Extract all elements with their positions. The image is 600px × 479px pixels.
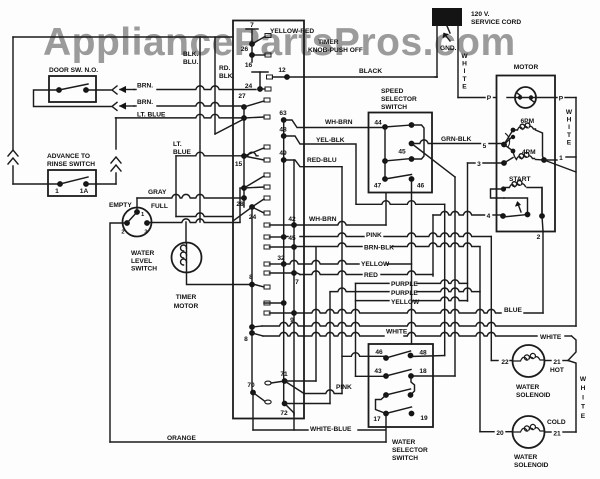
svg-text:E: E xyxy=(462,83,467,90)
wire black joins row xyxy=(435,76,437,78)
water level blade xyxy=(127,212,137,223)
svg-text:1: 1 xyxy=(141,212,145,218)
contact sq 287 xyxy=(264,285,270,289)
contact sq 198 xyxy=(264,196,270,200)
svg-text:RED: RED xyxy=(364,272,378,279)
speed terminal 46 xyxy=(409,176,415,182)
terminal 27 dot xyxy=(241,104,247,110)
svg-text:1: 1 xyxy=(559,155,563,162)
blade 24 to left xyxy=(233,207,252,221)
wire speed diag to 18 xyxy=(412,144,456,178)
timer assembly box xyxy=(233,21,304,419)
svg-text:28: 28 xyxy=(236,201,244,208)
contact oval 383 xyxy=(265,381,271,385)
service cord plug xyxy=(432,8,462,26)
wire 72 row xyxy=(285,403,330,405)
wire 21 cold xyxy=(545,431,552,433)
svg-text:TIMER: TIMER xyxy=(176,294,197,301)
terminal 26b dot xyxy=(249,52,255,58)
ground lead GRN xyxy=(447,26,450,33)
wire motor3 down xyxy=(467,163,469,301)
speed blade 47 xyxy=(385,175,412,180)
contact sq 147 xyxy=(264,145,270,149)
svg-text:48: 48 xyxy=(419,350,427,357)
svg-text:H: H xyxy=(462,61,467,68)
wire 71 row xyxy=(285,380,316,382)
wire BLUE row xyxy=(294,309,501,313)
svg-text:E: E xyxy=(581,413,586,420)
wsel terminal 48 xyxy=(408,353,414,359)
advance terminal 1A xyxy=(83,181,89,187)
svg-text:I: I xyxy=(582,394,584,401)
svg-text:32: 32 xyxy=(277,255,285,262)
svg-text:MOTOR: MOTOR xyxy=(514,64,539,71)
water level terminal 2 xyxy=(124,220,130,226)
wire full row xyxy=(147,219,240,223)
wire YELLOW row 32 xyxy=(284,260,359,264)
wire WHITE-BLUE row xyxy=(253,429,308,431)
svg-text:BRN-BLK: BRN-BLK xyxy=(364,245,394,252)
speed blade 44 xyxy=(385,125,412,127)
terminal 71 dot xyxy=(282,378,288,384)
blade 24-77 xyxy=(251,55,253,62)
svg-text:1: 1 xyxy=(55,188,59,195)
contact sq 117 xyxy=(264,115,270,119)
terminal 70 dot xyxy=(250,390,256,396)
svg-text:70: 70 xyxy=(247,382,255,389)
wire timer motor top xyxy=(185,222,187,243)
svg-text:LT.: LT. xyxy=(173,141,182,148)
connector chevron door row1 xyxy=(112,86,117,94)
start switch bar xyxy=(504,198,528,215)
svg-text:BRN.: BRN. xyxy=(137,83,153,90)
svg-text:W: W xyxy=(461,53,468,60)
svg-text:EMPTY: EMPTY xyxy=(109,202,132,209)
svg-text:DOOR SW. N.O.: DOOR SW. N.O. xyxy=(49,67,98,74)
wire 15 row xyxy=(176,152,258,156)
wire door right xyxy=(86,89,111,91)
switch SPEED SELECTOR box xyxy=(369,113,433,193)
terminal 7b dot xyxy=(291,270,297,276)
wire motor P row xyxy=(507,97,515,99)
door switch terminal right xyxy=(83,87,89,93)
centrifugal arrow xyxy=(518,203,522,213)
water level terminal 1 xyxy=(134,209,140,215)
motor box xyxy=(497,76,556,232)
svg-text:T: T xyxy=(581,404,585,411)
svg-text:MOTOR: MOTOR xyxy=(174,303,199,310)
svg-text:49: 49 xyxy=(279,150,287,157)
svg-text:15: 15 xyxy=(235,161,243,168)
svg-text:20: 20 xyxy=(496,430,504,437)
svg-text:24: 24 xyxy=(245,83,253,90)
terminal 9 dot xyxy=(291,310,297,316)
switch WATER SELECTOR box xyxy=(369,344,434,427)
svg-text:W: W xyxy=(566,109,573,116)
contact sq 55 xyxy=(265,53,271,57)
svg-text:BLACK: BLACK xyxy=(359,68,382,75)
switch DOOR box xyxy=(49,76,96,102)
svg-text:5: 5 xyxy=(483,143,487,150)
terminal 42 dot xyxy=(291,222,297,228)
timer motor M1 circle xyxy=(172,243,202,273)
wire WHITE row A xyxy=(252,326,262,327)
wire WH-BRN row 42 xyxy=(294,221,386,225)
contact sq 213 xyxy=(264,211,270,215)
svg-text:WATER: WATER xyxy=(131,250,155,257)
svg-text:48: 48 xyxy=(279,127,287,134)
svg-text:BRN.: BRN. xyxy=(137,99,153,106)
svg-text:72: 72 xyxy=(280,410,288,417)
motor circle xyxy=(515,87,536,108)
wire RD.BLK vertical xyxy=(214,37,216,134)
svg-text:YELLOW-RED: YELLOW-RED xyxy=(270,28,314,35)
svg-text:W: W xyxy=(580,376,587,383)
speed top right dot xyxy=(409,122,415,128)
wsel terminal 19 xyxy=(409,411,415,417)
svg-text:WATER: WATER xyxy=(392,439,416,446)
svg-text:43: 43 xyxy=(374,368,382,375)
svg-text:E: E xyxy=(567,139,572,146)
svg-text:46: 46 xyxy=(417,183,425,190)
svg-text:16: 16 xyxy=(245,62,253,69)
svg-text:RINSE SWITCH: RINSE SWITCH xyxy=(47,161,95,168)
wire 43 feed xyxy=(356,375,387,377)
svg-text:47: 47 xyxy=(374,183,382,190)
svg-text:SOLENOID: SOLENOID xyxy=(514,462,549,469)
svg-text:WH-BRN: WH-BRN xyxy=(309,216,337,223)
rail D xyxy=(293,160,295,415)
terminal 303 dot xyxy=(281,300,287,306)
svg-text:7: 7 xyxy=(250,22,254,29)
contact sq 273 xyxy=(264,271,270,275)
svg-text:TIMER: TIMER xyxy=(318,39,339,46)
wire motor terminal 2 xyxy=(541,188,543,217)
svg-text:2: 2 xyxy=(121,230,124,236)
wire 17 vertical xyxy=(385,414,387,443)
contact sq 100 xyxy=(264,98,270,102)
svg-text:BLK.: BLK. xyxy=(183,51,199,58)
coil START xyxy=(506,181,526,188)
wire ORANGE bottom xyxy=(110,441,386,443)
wire RED-BLU row 49 xyxy=(284,160,342,167)
wire 1A to connector xyxy=(86,183,116,185)
terminal 28 dot xyxy=(241,195,247,201)
svg-text:WHITE-BLUE: WHITE-BLUE xyxy=(310,426,352,433)
switch ADVANCE box xyxy=(48,170,96,196)
svg-text:45: 45 xyxy=(288,235,296,242)
wire YELLOW-RED top run xyxy=(13,36,233,38)
svg-text:SWITCH: SWITCH xyxy=(392,455,418,462)
svg-text:I: I xyxy=(568,124,570,131)
connector chevrons right xyxy=(111,157,121,163)
svg-text:SERVICE CORD: SERVICE CORD xyxy=(471,19,521,26)
terminal 15 dots xyxy=(241,153,247,159)
wire 70 drop xyxy=(252,393,254,431)
wire LT BLUE vertical xyxy=(175,156,177,217)
svg-text:RD.: RD. xyxy=(219,65,231,72)
rail C xyxy=(283,120,285,264)
wsel hook 18 down xyxy=(411,376,415,395)
contact oval 402 xyxy=(265,400,271,404)
speed left rail xyxy=(384,127,386,179)
terminal 32 dot xyxy=(281,261,287,267)
svg-text:PURPLE: PURPLE xyxy=(391,281,418,288)
svg-text:RED-BLU: RED-BLU xyxy=(307,157,337,164)
wire white lead xyxy=(457,26,459,98)
coil 6PM right lead xyxy=(536,130,545,160)
svg-text:COLD: COLD xyxy=(547,419,566,426)
solenoid COLD circle xyxy=(513,416,545,448)
wire BLUE up xyxy=(542,231,544,313)
terminal 8 dot xyxy=(249,282,255,288)
motor 4 dots and blade xyxy=(500,213,506,219)
svg-text:8: 8 xyxy=(249,274,253,281)
contact sq 237 xyxy=(264,235,270,239)
wsel mid dots xyxy=(383,392,389,398)
wire YELLOW2 row xyxy=(356,300,390,302)
wire BLACK row xyxy=(287,76,437,78)
wire 330 vertical xyxy=(329,293,331,404)
contact sq 35 xyxy=(265,34,271,38)
svg-text:44: 44 xyxy=(374,120,382,127)
svg-text:12: 12 xyxy=(278,67,286,74)
switch WATER LEVEL circle xyxy=(123,208,152,237)
svg-text:SPEED: SPEED xyxy=(381,88,404,95)
start loop left xyxy=(491,189,505,198)
svg-text:WHITE: WHITE xyxy=(540,334,562,341)
wsel terminal 46 xyxy=(383,355,389,361)
terminal 63 dot xyxy=(281,117,287,123)
rail A lower xyxy=(251,207,253,393)
svg-text:ORANGE: ORANGE xyxy=(167,435,197,442)
wsel blade 43-18 xyxy=(386,370,411,377)
terminal 8b dots xyxy=(249,324,255,330)
wsel hook 17 up xyxy=(376,395,387,414)
connector chevrons left xyxy=(8,150,18,156)
wire white-blue drop xyxy=(285,404,294,414)
svg-text:I: I xyxy=(464,68,466,75)
svg-text:P: P xyxy=(487,95,492,102)
motor brushes xyxy=(518,95,522,99)
coil START right lead xyxy=(527,188,542,216)
wire motor P right xyxy=(536,97,557,99)
wsel terminal 18 xyxy=(408,373,414,379)
svg-text:2: 2 xyxy=(537,234,541,241)
rail C lower xyxy=(283,264,285,404)
svg-text:21: 21 xyxy=(553,359,561,366)
wsel blade 46-48 xyxy=(386,351,411,358)
motor terminal 4 xyxy=(433,211,485,215)
svg-text:ADVANCE TO: ADVANCE TO xyxy=(47,153,90,160)
wire 4PM to 1 xyxy=(544,159,557,161)
svg-text:P: P xyxy=(559,96,564,103)
wire PINK row xyxy=(284,236,288,238)
svg-text:SOLENOID: SOLENOID xyxy=(516,392,551,399)
svg-text:PURPLE: PURPLE xyxy=(391,290,418,297)
svg-text:WATER: WATER xyxy=(516,384,540,391)
wire PINK drop to hot xyxy=(490,237,492,361)
svg-text:YELLOW: YELLOW xyxy=(391,299,420,306)
wire motor4 drop xyxy=(432,215,434,276)
svg-text:63: 63 xyxy=(279,110,287,117)
svg-text:22: 22 xyxy=(501,359,509,366)
svg-text:GRN-BLK: GRN-BLK xyxy=(441,136,472,143)
wire left outer vertical xyxy=(12,37,14,150)
wire 4PM diag white xyxy=(544,160,576,172)
svg-text:T: T xyxy=(462,76,466,83)
wire RED row xyxy=(294,273,300,275)
terminal 27b dot xyxy=(241,115,247,121)
wire BRN-BLK drop to cold xyxy=(479,247,481,432)
svg-text:46: 46 xyxy=(375,349,383,356)
svg-text:FULL: FULL xyxy=(151,203,168,210)
svg-text:1A: 1A xyxy=(80,188,89,195)
wire door left loop xyxy=(34,90,112,107)
solenoid HOT coil xyxy=(513,353,545,361)
contact sq 89 xyxy=(265,87,271,91)
contact sq 175 xyxy=(264,173,270,177)
wire orange left vertical xyxy=(110,223,127,442)
solenoid HOT circle xyxy=(513,345,545,377)
motor 5 pivot xyxy=(501,142,507,148)
wire YEL-BLK row 48 xyxy=(284,136,356,204)
arrow BRN row1 xyxy=(120,89,134,91)
svg-text:42: 42 xyxy=(288,216,296,223)
terminal 12 dot xyxy=(284,74,290,80)
motor rotary arc xyxy=(506,134,510,148)
svg-text:YELLOW: YELLOW xyxy=(361,261,390,268)
svg-text:WATER: WATER xyxy=(514,454,538,461)
coil 6PM xyxy=(513,123,536,130)
terminal 45 dot xyxy=(291,244,297,250)
wire white down to cold xyxy=(568,361,576,433)
svg-text:SWITCH: SWITCH xyxy=(381,104,407,111)
speed blade mid xyxy=(385,159,412,162)
svg-text:PINK: PINK xyxy=(366,232,382,239)
svg-text:WHITE: WHITE xyxy=(386,329,408,336)
rail A upper xyxy=(251,44,253,55)
wire PURPLE1 row xyxy=(356,282,390,284)
terminal 24 dot xyxy=(257,86,263,92)
advance terminal 1 xyxy=(57,181,63,187)
terminal 72 dot xyxy=(282,401,288,407)
contact sq 160 xyxy=(264,158,270,162)
contact sq 303 xyxy=(264,301,270,305)
wire 316 vertical xyxy=(315,247,317,381)
advance blade xyxy=(60,177,88,184)
rail B xyxy=(243,107,245,207)
speed mid dots xyxy=(382,158,388,164)
svg-text:17: 17 xyxy=(373,416,381,423)
door switch blade xyxy=(59,84,88,90)
wire WH-BRN row 63 xyxy=(284,120,385,128)
connector chevron door row2 xyxy=(112,102,117,110)
contact sq 225 xyxy=(264,223,270,227)
svg-text:4: 4 xyxy=(487,213,491,220)
wire white right vertical xyxy=(575,98,577,327)
solenoid COLD coil xyxy=(513,424,545,432)
terminal 24b dot xyxy=(249,204,255,210)
svg-text:71: 71 xyxy=(280,371,288,378)
speed terminal 45R xyxy=(409,141,415,147)
svg-text:7: 7 xyxy=(295,279,299,286)
svg-text:BLUE: BLUE xyxy=(504,307,523,314)
wsel blade 17-19 xyxy=(386,407,412,414)
wire 1 tick xyxy=(566,156,576,158)
wire WHITE row B xyxy=(252,333,263,336)
svg-text:21: 21 xyxy=(553,431,561,438)
svg-text:H: H xyxy=(581,385,586,392)
wire pink394 row xyxy=(285,381,304,394)
contact sq 77 and wire 12 xyxy=(267,75,273,79)
svg-text:H: H xyxy=(567,117,572,124)
wire black lead xyxy=(436,26,438,77)
wire to rinse switch 1 xyxy=(13,183,60,185)
wsel terminal 43 xyxy=(383,373,389,379)
svg-text:SELECTOR: SELECTOR xyxy=(381,96,417,103)
motor 4PM junction dot xyxy=(541,157,547,163)
contact sq 187 xyxy=(264,185,270,189)
svg-text:T: T xyxy=(567,132,571,139)
svg-text:27: 27 xyxy=(238,93,246,100)
door switch terminal left xyxy=(56,87,62,93)
ground arrow xyxy=(444,34,450,42)
svg-text:SWITCH: SWITCH xyxy=(131,266,157,273)
svg-text:WH-BRN: WH-BRN xyxy=(325,119,353,126)
wire BRN-BLK row xyxy=(294,243,362,247)
svg-text:PINK: PINK xyxy=(336,384,352,391)
speed terminal 47 xyxy=(382,176,388,182)
contact sq 264 xyxy=(264,262,270,266)
wire BRN row2 into timer xyxy=(134,105,136,107)
terminal 48t dot xyxy=(281,133,287,139)
speed terminal 44 xyxy=(382,124,388,130)
wire GRN-BLK xyxy=(412,140,481,144)
wire BRN row1 into timer xyxy=(134,89,136,91)
svg-text:KNOB-PUSH OFF: KNOB-PUSH OFF xyxy=(308,47,363,54)
svg-text:YEL-BLK: YEL-BLK xyxy=(316,137,345,144)
svg-text:120 V.: 120 V. xyxy=(471,11,490,18)
motor terminal 3 xyxy=(468,162,476,164)
svg-text:3: 3 xyxy=(477,161,481,168)
speed hook 44 to mid xyxy=(412,125,425,159)
svg-text:26: 26 xyxy=(241,46,249,53)
svg-text:SELECTOR: SELECTOR xyxy=(392,447,428,454)
terminal 26 dot xyxy=(249,41,255,47)
svg-text:8: 8 xyxy=(244,336,248,343)
wire BLK.BLU vertical xyxy=(199,37,201,222)
svg-text:GRAY: GRAY xyxy=(148,189,167,196)
wire 21 hot xyxy=(545,360,552,362)
wire GRAY run xyxy=(136,198,138,212)
wsel terminal 17 xyxy=(383,411,389,417)
terminal 49 dot xyxy=(281,157,287,163)
svg-text:19: 19 xyxy=(420,415,428,422)
contact sq 313 xyxy=(264,311,270,315)
wire LT BLUE row3 xyxy=(116,114,245,118)
contact sq 247 xyxy=(264,245,270,249)
arrow BRN row2 xyxy=(120,105,134,107)
wsel blade mid xyxy=(386,389,411,395)
wire PURPLE2 row xyxy=(330,288,389,292)
wire timer motor bottom to 8 xyxy=(187,273,253,285)
wire 46 drop 411 xyxy=(411,179,413,344)
terminal pinkrow dot xyxy=(281,234,287,240)
svg-text:HOT: HOT xyxy=(550,367,564,374)
water level terminal 3 xyxy=(144,220,150,226)
svg-text:GND.: GND. xyxy=(440,45,457,52)
